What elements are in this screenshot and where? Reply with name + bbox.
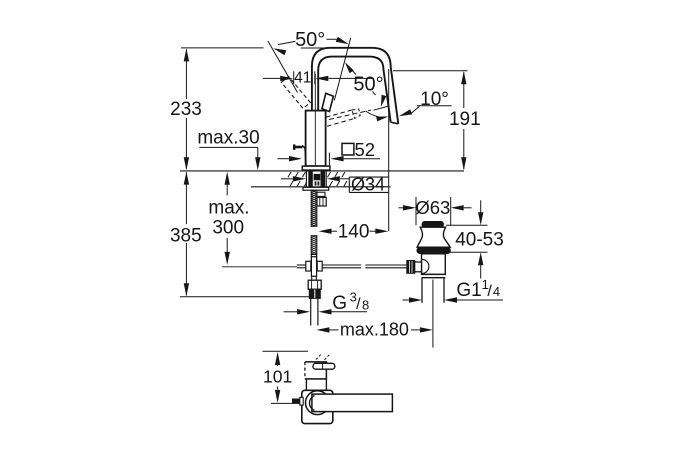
svg-text:8: 8 [362,298,369,313]
svg-text:10°: 10° [420,89,449,110]
svg-text:52: 52 [355,139,376,160]
svg-text:191: 191 [449,109,481,130]
svg-text:385: 385 [170,225,202,246]
svg-text:41: 41 [294,70,311,87]
svg-text:300: 300 [212,218,244,239]
svg-text:Ø63: Ø63 [415,197,450,218]
svg-text:max.30: max.30 [197,127,259,148]
svg-text:140: 140 [338,222,370,243]
svg-text:G1: G1 [456,280,481,301]
svg-text:233: 233 [170,99,202,120]
svg-text:/: / [487,283,492,300]
svg-text:/: / [356,296,361,313]
svg-text:Ø34: Ø34 [351,174,385,194]
svg-text:G: G [332,293,347,314]
svg-text:max.: max. [208,197,249,218]
svg-text:40-53: 40-53 [455,230,504,251]
svg-text:max.180: max.180 [340,320,409,340]
svg-text:50°: 50° [353,73,383,95]
svg-text:4: 4 [493,284,500,299]
svg-text:101: 101 [263,366,292,386]
